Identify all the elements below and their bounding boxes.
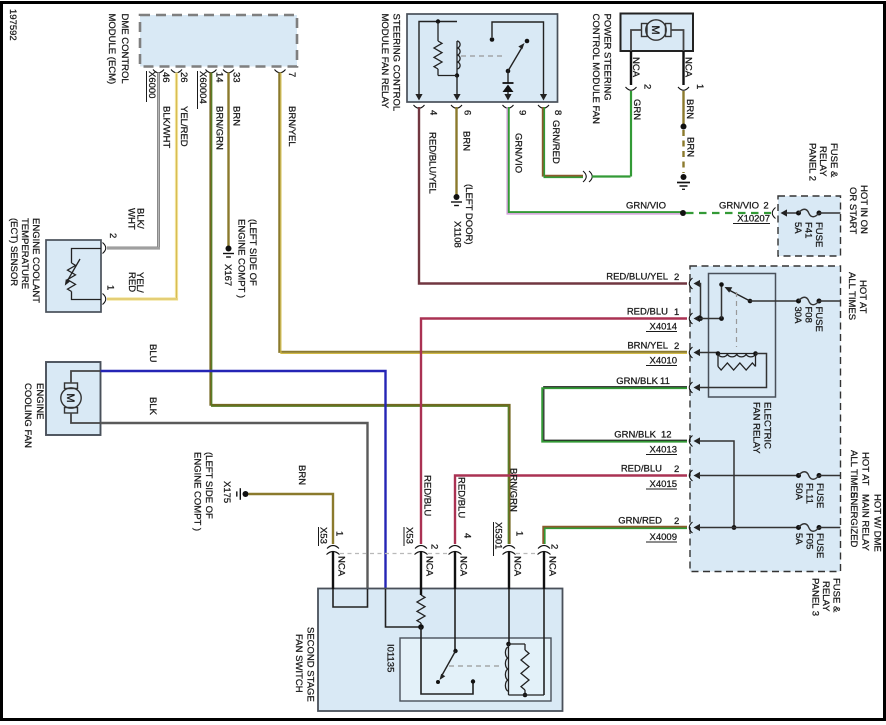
relay K1 actuator dashed link — [461, 55, 505, 57]
svg-text:F41: F41 — [803, 222, 814, 238]
engine coolant temperature (ECT) sensor — [46, 240, 101, 312]
svg-text:2: 2 — [763, 201, 768, 212]
fan switch internal BRN-BLK jumper — [333, 589, 368, 607]
svg-text:RELAY: RELAY — [820, 581, 831, 612]
wire RED/BLU/YEL relay pin4 to panel3 — [419, 107, 687, 284]
panel2 pin arrow — [781, 209, 788, 216]
psc fan pin1 connector — [678, 87, 689, 90]
svg-text:OR START: OR START — [847, 187, 858, 234]
svg-text:X60004: X60004 — [197, 71, 208, 104]
svg-text:ELECTRIC: ELECTRIC — [762, 402, 773, 449]
svg-text:14: 14 — [214, 72, 225, 83]
relay K1 switch contact dot — [525, 39, 530, 44]
svg-text:MAIN RELAY: MAIN RELAY — [860, 494, 871, 552]
svg-text:BRN/GRN: BRN/GRN — [508, 468, 519, 512]
svg-text:X10207: X10207 — [737, 214, 770, 225]
fan switch pin2 internal wire — [543, 589, 545, 695]
svg-text:PANEL 3: PANEL 3 — [810, 578, 821, 616]
panel3 internal GRN/BLK12 link — [699, 441, 734, 528]
svg-text:NCA: NCA — [458, 556, 469, 577]
svg-text:4: 4 — [462, 533, 473, 538]
node BLU-resistor junction — [418, 624, 424, 630]
svg-text:2: 2 — [549, 544, 560, 549]
svg-text:26: 26 — [178, 72, 189, 83]
fan switch contact dot — [471, 679, 475, 683]
svg-text:DME CONTROL: DME CONTROL — [119, 14, 130, 84]
inline connector arcs on GRN/RED — [583, 171, 586, 182]
fuse F41 5A — [796, 211, 801, 216]
motor M2 power steering fan — [646, 20, 666, 40]
svg-text:FUSE: FUSE — [814, 533, 825, 558]
relay K1 pin connectors — [414, 105, 425, 108]
steering control module fan relay box K1 — [407, 14, 558, 102]
fan switch coil parallel resistor R2 — [524, 644, 526, 650]
svg-text:X53: X53 — [404, 527, 415, 544]
svg-text:X4015: X4015 — [650, 479, 677, 490]
svg-text:X4009: X4009 — [650, 532, 677, 543]
svg-text:4: 4 — [428, 110, 439, 115]
svg-text:FL11: FL11 — [804, 483, 815, 504]
fuse FL11 right lead — [819, 475, 841, 477]
svg-text:FUSE &: FUSE & — [831, 578, 842, 613]
wire NCA X5301-2 — [543, 552, 545, 590]
wire BRN psc fan pin1 solid — [682, 91, 684, 124]
wire GRN/RED X4009 to X5301-2 — [543, 527, 687, 544]
svg-text:12: 12 — [661, 430, 672, 441]
relay K2 switch blade — [728, 290, 750, 302]
inner box I01135 — [400, 638, 551, 701]
svg-text:2: 2 — [642, 84, 653, 89]
wire BRN/YEL DME-7 to X4010 — [279, 73, 687, 352]
svg-text:1: 1 — [514, 531, 525, 536]
fan switch coil top node — [506, 642, 511, 647]
svg-text:BLK: BLK — [147, 397, 158, 416]
svg-text:ENGINE COOLANT: ENGINE COOLANT — [30, 218, 41, 303]
fuse F05 right lead — [819, 527, 841, 529]
svg-text:8: 8 — [552, 110, 563, 115]
svg-text:2: 2 — [107, 233, 118, 238]
relay K2 switch contact dot — [719, 282, 724, 287]
panel3 internal RED/BLU/YEL link — [699, 284, 701, 319]
svg-text:BRN: BRN — [684, 99, 695, 119]
wire GRN/VIO relay pin9 to junction — [507, 107, 683, 214]
svg-text:ENERGIZED: ENERGIZED — [848, 492, 859, 548]
svg-text:FAN RELAY: FAN RELAY — [751, 402, 762, 454]
ECT pin 1 connector — [103, 294, 106, 305]
svg-text:1: 1 — [334, 531, 345, 536]
svg-text:BLU: BLU — [147, 344, 158, 363]
svg-text:ENGINE: ENGINE — [34, 383, 45, 419]
svg-text:GRN/VIO: GRN/VIO — [626, 201, 666, 212]
relay K1 coil-resistor top node — [436, 19, 440, 23]
svg-text:1: 1 — [674, 307, 679, 318]
ground G1 — [681, 174, 687, 180]
svg-text:(LEFT SIDE OF: (LEFT SIDE OF — [203, 452, 214, 519]
fuse F08 30A — [796, 299, 801, 304]
svg-text:WHT: WHT — [126, 208, 137, 230]
fan switch switch blade — [441, 651, 456, 677]
svg-text:197592: 197592 — [7, 9, 18, 41]
svg-text:GRN/RED: GRN/RED — [618, 516, 662, 527]
svg-text:2: 2 — [674, 341, 679, 352]
svg-text:RED/BLU: RED/BLU — [627, 307, 668, 318]
svg-text:RED/BLU/YEL: RED/BLU/YEL — [606, 272, 668, 283]
relay K1 diode D1 — [507, 71, 509, 83]
svg-text:ENGINE COMPT ): ENGINE COMPT ) — [236, 219, 247, 298]
svg-text:HOT AT: HOT AT — [857, 280, 868, 314]
splice X175 — [243, 491, 249, 497]
panel3 internal RED/BLU pin1 wire — [699, 318, 722, 320]
svg-text:GRN/VIO: GRN/VIO — [719, 201, 759, 212]
panel3 internal BRN/YEL wire — [699, 352, 718, 354]
svg-text:F05: F05 — [804, 533, 815, 549]
svg-text:GRN/BLK: GRN/BLK — [616, 376, 658, 387]
panel3 pin connectors — [689, 278, 692, 289]
svg-text:PANEL 2: PANEL 2 — [807, 143, 818, 181]
svg-text:FAN SWITCH: FAN SWITCH — [293, 634, 304, 693]
wire BRN dashed to ground — [682, 130, 684, 173]
panel3 internal GRN/RED wire — [699, 527, 798, 529]
relay K1 pin arrows at box edge — [415, 94, 422, 101]
fan switch open contact dot — [436, 680, 440, 684]
relay K2 coil left node — [716, 351, 721, 356]
panel3 internal RED/BLU pin2 wire — [699, 475, 798, 477]
svg-text:30A: 30A — [792, 307, 803, 325]
svg-text:7: 7 — [286, 72, 297, 77]
svg-text:F08: F08 — [803, 307, 814, 323]
wire BLK cooling fan to fan switch — [101, 423, 368, 589]
fan switch switch common wire — [454, 589, 456, 650]
motor M1 engine cooling fan — [61, 388, 81, 408]
svg-text:M: M — [64, 393, 76, 402]
svg-text:2: 2 — [429, 544, 440, 549]
svg-text:GRN/RED: GRN/RED — [550, 120, 561, 164]
fuse F08 right lead — [819, 300, 841, 302]
fan switch resistor R1 — [417, 595, 425, 623]
junction on BRN — [681, 124, 687, 130]
wire GRN/BLK jumper pins 11-12 — [544, 387, 687, 441]
svg-text:1: 1 — [105, 285, 116, 290]
splice X167 — [226, 246, 232, 252]
svg-text:(ECT) SENSOR: (ECT) SENSOR — [8, 218, 19, 286]
ECT pin 2 connector — [103, 243, 106, 254]
node RED/BLU/YEL to RED/BLU — [698, 316, 703, 321]
fuse F05 5A — [796, 525, 801, 530]
fan switch internal BLU path — [386, 589, 422, 627]
svg-text:X4014: X4014 — [650, 322, 677, 333]
fan switch coil L1 — [508, 647, 510, 691]
svg-text:NCA: NCA — [512, 556, 523, 577]
power steering control module fan box — [621, 14, 694, 52]
svg-text:5A: 5A — [793, 533, 804, 545]
fuse & relay panel 2 box — [778, 196, 841, 256]
svg-text:RED/BLU/YEL: RED/BLU/YEL — [427, 132, 438, 194]
node GRN/BLK12 to GRN/RED — [732, 525, 737, 530]
svg-text:BRN: BRN — [231, 106, 242, 126]
relay K2 coil parallel resistor — [717, 354, 719, 367]
svg-text:GRN/VIO: GRN/VIO — [513, 133, 524, 173]
svg-text:BRN: BRN — [461, 131, 472, 151]
svg-text:(LEFT SIDE OF: (LEFT SIDE OF — [247, 219, 258, 286]
svg-text:CONTROL MODULE FAN: CONTROL MODULE FAN — [590, 14, 601, 125]
svg-text:1: 1 — [694, 84, 705, 89]
panel3 pin arrows — [694, 280, 701, 287]
wire NCA psc fan pin2 — [630, 51, 632, 85]
svg-text:STEERING CONTROL: STEERING CONTROL — [391, 14, 402, 112]
svg-text:X5301: X5301 — [493, 522, 504, 549]
wire YEL/RED DME-26 to ECT-1 — [107, 73, 177, 300]
relay K2 coil — [718, 353, 756, 355]
fuse & relay panel 3 box — [690, 266, 841, 572]
fan switch coil bottom node — [523, 693, 528, 698]
relay K1 contact stub dot — [490, 37, 495, 42]
wire GRN/RED relay pin8 to inline connector — [543, 107, 583, 176]
svg-text:X1108: X1108 — [452, 221, 463, 248]
svg-text:BRN/YEL: BRN/YEL — [286, 106, 297, 147]
wire GRN psc fan pin2 to inline connector — [592, 91, 631, 177]
relay K2 coil to GRN/BLK11 pin — [699, 354, 767, 388]
second stage fan switch box — [318, 589, 563, 712]
svg-text:BRN/GRN: BRN/GRN — [214, 106, 225, 150]
connector link dashes — [340, 553, 414, 555]
svg-text:NCA: NCA — [630, 57, 641, 78]
connector X10207 bracket — [772, 208, 775, 219]
svg-text:6: 6 — [462, 110, 473, 115]
svg-text:X53: X53 — [318, 527, 329, 544]
svg-text:RELAY: RELAY — [817, 146, 828, 177]
svg-text:NCA: NCA — [547, 556, 558, 577]
svg-text:RED: RED — [126, 272, 137, 292]
svg-text:X167: X167 — [222, 264, 233, 286]
relay K1 pin8 rail — [492, 22, 544, 96]
wire RED/BLU X4014 to X53-2 — [421, 319, 687, 545]
wire NCA psc fan pin1 — [682, 51, 684, 85]
svg-text:FUSE: FUSE — [814, 483, 825, 508]
svg-text:FUSE: FUSE — [813, 222, 824, 247]
svg-text:2: 2 — [674, 464, 679, 475]
wire BLU cooling fan to fan switch — [101, 371, 386, 589]
svg-text:NCA: NCA — [424, 556, 435, 577]
svg-text:ALL TIMES: ALL TIMES — [846, 272, 857, 320]
svg-text:TEMPERATURE: TEMPERATURE — [19, 218, 30, 289]
svg-text:50A: 50A — [793, 483, 804, 501]
relay K2 actuator dashed link — [736, 292, 738, 347]
svg-text:COOLING FAN: COOLING FAN — [22, 383, 33, 448]
svg-text:11: 11 — [660, 376, 670, 387]
fan switch actuator dashed link — [449, 665, 502, 667]
wire BLK/WHT DME-46 to ECT-2 — [107, 73, 159, 249]
svg-text:2: 2 — [674, 516, 679, 527]
wire GRN/VIO dashed to X10207 — [686, 212, 771, 214]
svg-text:46: 46 — [160, 72, 171, 83]
relay K2 coil right node — [753, 351, 758, 356]
svg-text:X4013: X4013 — [650, 445, 677, 456]
svg-text:9: 9 — [517, 110, 528, 115]
svg-text:2: 2 — [674, 272, 679, 283]
psc fan pin2 connector — [626, 87, 637, 90]
svg-text:YEL/RED: YEL/RED — [178, 106, 189, 147]
svg-text:RED/BLU: RED/BLU — [621, 464, 662, 475]
svg-text:NCA: NCA — [336, 556, 347, 577]
svg-text:RED/BLU: RED/BLU — [422, 475, 433, 516]
relay K2 switch pivot — [748, 299, 753, 304]
inline connector halves — [327, 546, 339, 549]
svg-text:HOT IN ON: HOT IN ON — [858, 185, 869, 234]
thermistor RT inside ECT sensor — [72, 249, 102, 264]
svg-text:5A: 5A — [792, 222, 803, 234]
svg-text:NCA: NCA — [683, 57, 694, 78]
svg-text:HOT AT: HOT AT — [860, 452, 871, 486]
wire NCA X53-1 — [332, 552, 334, 590]
relay K2 switch to fuse F08 — [750, 300, 798, 302]
svg-text:BRN: BRN — [685, 137, 696, 157]
svg-text:ENGINE COMPT ): ENGINE COMPT ) — [192, 452, 203, 531]
svg-text:X6000: X6000 — [146, 71, 157, 98]
fan switch internal to contact — [421, 627, 473, 694]
svg-text:BRN/YEL: BRN/YEL — [627, 341, 668, 352]
fan switch switch common dot — [453, 649, 457, 653]
wire BRN X175 to X53-1 — [249, 494, 334, 544]
svg-text:M: M — [649, 25, 661, 34]
fan switch coil input wire — [508, 589, 510, 643]
wire RED/BLU X4015 to X53-4 — [455, 476, 687, 545]
svg-text:BLK/WHT: BLK/WHT — [161, 106, 172, 148]
svg-text:ALL TIMES: ALL TIMES — [848, 450, 859, 498]
svg-text:POWER STEERING: POWER STEERING — [602, 14, 613, 101]
relay K1 switch blade — [508, 47, 523, 72]
wire NCA X53-4 — [454, 552, 456, 590]
relay K1 switch pivot — [506, 69, 511, 74]
wire BRN relay pin6 to splice X1108 — [455, 107, 457, 195]
DME pin connectors — [153, 70, 164, 73]
svg-text:SECOND STAGE: SECOND STAGE — [305, 627, 316, 702]
splice X1108 — [454, 194, 460, 200]
svg-text:HOT W/ DME: HOT W/ DME — [872, 494, 883, 552]
svg-text:I01135: I01135 — [385, 644, 396, 672]
wire NCA X53-2 — [420, 552, 422, 596]
fuse F41 right lead — [819, 212, 841, 214]
relay K1 resistor — [437, 22, 439, 42]
svg-text:33: 33 — [231, 72, 242, 83]
svg-text:GRN: GRN — [631, 99, 642, 120]
svg-text:FUSE: FUSE — [813, 307, 824, 332]
engine cooling fan motor box — [46, 362, 101, 435]
node at relay switch feed — [719, 316, 724, 321]
svg-text:MODULE (ECM): MODULE (ECM) — [106, 14, 117, 85]
svg-text:MODULE FAN RELAY: MODULE FAN RELAY — [379, 14, 390, 110]
svg-text:X4010: X4010 — [650, 356, 677, 367]
wire BRN/GRN DME-14 to X5301-1 — [210, 73, 509, 545]
relay K1 coil — [456, 41, 458, 69]
svg-text:RED/BLU: RED/BLU — [456, 477, 467, 518]
relay K1 coil bottom node — [455, 73, 459, 77]
svg-text:(LEFT DOOR): (LEFT DOOR) — [463, 184, 474, 245]
junction on GRN/VIO — [680, 210, 686, 216]
svg-text:BRN: BRN — [296, 465, 307, 485]
DME control module (ECM) U-DME — [140, 15, 297, 67]
svg-text:FUSE &: FUSE & — [828, 143, 839, 178]
wire BRN DME-33 to splice X167 — [227, 73, 229, 247]
electric fan relay box K2 — [709, 274, 776, 398]
relay K1 internal wire pin4 rail — [419, 22, 457, 96]
svg-text:GRN/BLK: GRN/BLK — [614, 430, 656, 441]
fuse FL11 50A — [796, 473, 801, 478]
svg-text:X175: X175 — [221, 481, 232, 503]
wire NCA X5301-1 — [508, 552, 510, 590]
